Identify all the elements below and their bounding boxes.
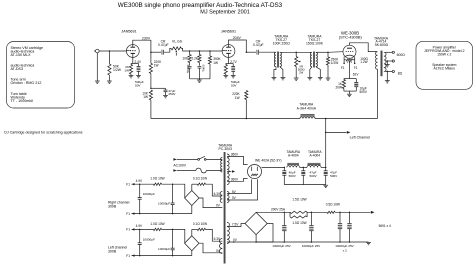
- switch SW1: [177, 158, 198, 160]
- wire T1 primary bottom to ground: [274, 67, 276, 78]
- svg-text:TT - 1000mkII: TT - 1000mkII: [11, 99, 34, 103]
- svg-text:8Ω: 8Ω: [398, 72, 403, 76]
- capacitor C9 40uF 500V: [284, 167, 286, 169]
- ground (T1 sec): [281, 77, 286, 79]
- capacitor C2 0.0033uF: [189, 63, 191, 66]
- svg-text:ALTEC Milano: ALTEC Milano: [434, 67, 456, 71]
- ground (VR): [294, 77, 299, 79]
- ground (V3 cathode): [347, 93, 352, 95]
- wire OPT secondary bottom to ground: [386, 71, 388, 80]
- svg-text:150W x 2: 150W x 2: [437, 52, 451, 56]
- terminal AC100V neutral: [173, 169, 176, 172]
- winding 6.3V right channel: [220, 192, 222, 203]
- svg-text:600Ω: 600Ω: [397, 53, 406, 57]
- svg-text:6.3V: 6.3V: [214, 192, 221, 196]
- resistor R2 10K: [189, 51, 191, 55]
- svg-text:5691 x 4: 5691 x 4: [379, 224, 391, 228]
- svg-text:2.2K: 2.2K: [191, 57, 198, 61]
- svg-text:F1: F1: [126, 254, 130, 258]
- resistor R11 1K 20W cathode: [344, 78, 356, 80]
- svg-text:1/2W: 1/2W: [113, 68, 122, 72]
- svg-text:WE 402A (5Z-3Y): WE 402A (5Z-3Y): [255, 159, 281, 163]
- wire V1 cathode: [132, 57, 134, 63]
- capacitor C14 10000uF 25V x2 a: [339, 212, 341, 214]
- capacitor 10000uF b Right: [172, 183, 174, 185]
- potentiometer VR 500 2W: [295, 52, 297, 56]
- svg-text:450V: 450V: [168, 92, 176, 96]
- svg-text:A-4004: A-4004: [310, 153, 321, 157]
- svg-text:WE300B single phono preamplif: WE300B single phono preamplifier Audio-T…: [118, 2, 283, 9]
- filament of V3 with legs F1 F1: [345, 55, 354, 57]
- wire bridge right to 0V tap Left: [199, 243, 222, 253]
- wire bridge top to 0.1ohm Left: [191, 229, 193, 235]
- resistor 0.1ohm 10W Left: [197, 228, 205, 230]
- wire RIAA common: [190, 78, 210, 80]
- wire bridge right to 0V tap Right: [199, 198, 222, 208]
- svg-text:0.47μF: 0.47μF: [253, 43, 264, 47]
- wire T2 primary bottom to ground: [310, 67, 312, 78]
- bridge rectifier BR3 200V 25A: [245, 212, 267, 234]
- capacitor C3 0.047uF: [198, 63, 200, 66]
- svg-text:1/2W: 1/2W: [331, 61, 338, 65]
- ground (R5): [129, 75, 134, 77]
- svg-text:500V: 500V: [360, 90, 368, 94]
- wire B+ riser from PSU: [325, 119, 327, 168]
- ground (RIAA): [198, 79, 200, 80]
- triode V1 JAN5691: [126, 45, 139, 58]
- svg-text:4.9V: 4.9V: [136, 179, 143, 183]
- svg-text:Ortofon : RMG 212: Ortofon : RMG 212: [11, 81, 42, 85]
- resistor 1.0ohm 10W Right: [153, 183, 161, 185]
- svg-text:A-4004: A-4004: [288, 153, 299, 157]
- svg-text:F1: F1: [126, 182, 130, 186]
- wire BR3 - rail: [256, 235, 368, 242]
- svg-text:1.0Ω 10W: 1.0Ω 10W: [150, 222, 164, 226]
- winding primary AC: [221, 158, 223, 172]
- svg-text:F1: F1: [354, 66, 358, 70]
- node C: [199, 50, 201, 52]
- svg-text:1W: 1W: [235, 96, 240, 100]
- svg-text:62V: 62V: [353, 72, 360, 76]
- wire jack to V1 grid: [99, 50, 126, 52]
- svg-text:500V: 500V: [310, 174, 318, 178]
- capacitor C6 0.47uF coupling: [256, 50, 258, 55]
- wire V2 plate to node F: [229, 40, 247, 52]
- svg-text:300B: 300B: [108, 204, 117, 208]
- svg-text:JAN5691: JAN5691: [221, 30, 236, 34]
- winding HV 360-0-360: [227, 154, 229, 185]
- svg-text:DJ Cartridge designed for scra: DJ Cartridge designed for scratching app…: [4, 131, 83, 135]
- svg-text:150Ω:100K: 150Ω:100K: [306, 41, 324, 45]
- resistor R6 220K 1W plate load: [150, 52, 152, 63]
- capacitor C7 500uF 50V cathode bypass V2: [232, 64, 234, 67]
- wire 0.1ohm to 6.3V tap Left: [206, 229, 223, 241]
- capacitor C13 10000uF 25V: [311, 212, 313, 214]
- ground (R9): [223, 75, 228, 77]
- svg-text:MJ September 2001: MJ September 2001: [200, 9, 250, 15]
- node B: [189, 50, 191, 52]
- resistor R10 250K 1/2W grid V3: [327, 52, 329, 57]
- svg-text:10000μF: 10000μF: [143, 237, 155, 241]
- svg-text:2.7V: 2.7V: [230, 60, 237, 64]
- wire OPT secondary mid to ground: [386, 61, 388, 65]
- wire OPT secondary tap mid: [385, 60, 392, 62]
- ground (C4): [136, 75, 141, 77]
- svg-text:10000μF 25V: 10000μF 25V: [272, 244, 291, 248]
- svg-text:360V: 360V: [231, 153, 239, 157]
- svg-text:2W: 2W: [299, 71, 304, 75]
- ground (T1 pri): [272, 77, 277, 79]
- wire cathode network bottom to ground: [344, 90, 356, 92]
- svg-text:1W: 1W: [213, 61, 218, 65]
- svg-text:10K: 10K: [183, 57, 190, 61]
- terminal F1 Left +: [132, 228, 135, 230]
- svg-text:x 2: x 2: [343, 248, 347, 252]
- svg-text:500V: 500V: [330, 174, 338, 178]
- ground (R10): [326, 77, 331, 79]
- svg-text:0.1Ω 10W: 0.1Ω 10W: [193, 177, 207, 181]
- svg-text:AC100V: AC100V: [173, 163, 186, 167]
- terminal F1 Left -: [132, 254, 135, 256]
- wire T1 secondary bottom to ground: [280, 67, 283, 78]
- svg-text:AT-DS3: AT-DS3: [11, 67, 24, 71]
- svg-text:0.1Ω 10W: 0.1Ω 10W: [193, 222, 207, 226]
- wire plate node to C1: [151, 51, 161, 53]
- svg-text:JAN5691: JAN5691: [121, 30, 136, 34]
- capacitor 10000uF a Left: [139, 229, 141, 231]
- svg-text:1W: 1W: [154, 63, 159, 67]
- wire Left rail to bridge: [162, 229, 185, 243]
- wire OPT secondary tap 8 ohm: [385, 70, 392, 72]
- svg-text:0.47μF: 0.47μF: [158, 43, 169, 47]
- svg-text:10000μF: 10000μF: [158, 247, 170, 251]
- svg-text:F1: F1: [126, 212, 130, 216]
- svg-text:4.9V: 4.9V: [136, 224, 143, 228]
- ground (PSU filter): [323, 184, 328, 186]
- svg-text:50V: 50V: [135, 84, 141, 88]
- ground (C5): [163, 95, 168, 97]
- potentiometer VL.GS: [171, 47, 181, 50]
- svg-text:200V 25A: 200V 25A: [271, 208, 286, 212]
- svg-text:2.4V: 2.4V: [135, 60, 142, 64]
- wire left channel feed: [325, 132, 327, 134]
- svg-text:F1: F1: [126, 228, 130, 232]
- wire T2 secondary bottom to ground: [316, 67, 321, 78]
- resistor R4 390K 1W: [209, 51, 211, 56]
- svg-text:360V: 360V: [231, 178, 239, 182]
- svg-text:1.0Ω 10W: 1.0Ω 10W: [150, 177, 164, 181]
- wire bridge bottom Left: [191, 251, 193, 256]
- svg-text:0.5Ω 10W: 0.5Ω 10W: [326, 202, 340, 206]
- wire jack shield to ground: [96, 53, 98, 81]
- info box: power amplifier / speakers: [416, 41, 473, 89]
- svg-text:A-3H4 40mA: A-3H4 40mA: [297, 106, 317, 110]
- resistor 1.0ohm 10W Left: [153, 228, 161, 230]
- svg-text:10000μF: 10000μF: [143, 192, 155, 196]
- capacitor 10000uF a Right: [139, 183, 141, 185]
- bridge rectifier Right: [185, 191, 199, 206]
- svg-text:Left Channel: Left Channel: [350, 135, 371, 139]
- capacitor C5 47uF 450V decoupling: [165, 88, 167, 89]
- ground (T2 sec): [318, 77, 323, 79]
- ground (OPT bottom): [385, 80, 390, 82]
- capacitor 10000uF b Left: [172, 229, 174, 231]
- terminal AC100V line: [173, 158, 176, 161]
- svg-text:0.0033μ: 0.0033μ: [186, 65, 188, 74]
- svg-text:(STC-4300B): (STC-4300B): [339, 34, 363, 39]
- info box: cartridge / tone arm / turntable: [7, 42, 75, 109]
- wire V2 cathode: [228, 57, 230, 63]
- svg-text:1W: 1W: [124, 68, 129, 72]
- svg-text:VL.GS: VL.GS: [172, 39, 183, 43]
- terminal F1 Right +: [132, 183, 135, 185]
- svg-text:204V: 204V: [233, 36, 242, 40]
- wire T2 secondary to V3 grid: [316, 51, 328, 53]
- resistor 0.1ohm 10W Right: [197, 183, 205, 185]
- wire pot to V2 grid: [181, 48, 222, 51]
- svg-text:1.2W: 1.2W: [360, 60, 367, 64]
- wire bridge bottom Right: [191, 206, 193, 214]
- wire BR3 + rail: [255, 211, 257, 213]
- ground (lower PSU): [366, 241, 371, 243]
- ground (OPT mid): [385, 64, 390, 66]
- bridge rectifier Left: [185, 236, 199, 251]
- svg-text:1.5Ω 10W: 1.5Ω 10W: [292, 221, 306, 225]
- wire PSU filter ground bus: [284, 184, 325, 186]
- svg-text:100K:150Ω: 100K:150Ω: [273, 41, 290, 45]
- svg-text:1.5Ω 10W: 1.5Ω 10W: [292, 198, 306, 202]
- node D: [209, 50, 211, 52]
- resistor R8 220K 1W plate load V2: [245, 91, 248, 100]
- svg-text:F1: F1: [341, 66, 345, 70]
- svg-text:10000μF: 10000μF: [158, 202, 170, 206]
- winding 6.3V left channel: [219, 239, 222, 254]
- svg-text:6.3V: 6.3V: [214, 237, 221, 241]
- terminal F1 Right -: [132, 212, 135, 214]
- svg-text:50V: 50V: [231, 84, 237, 88]
- winding 7.5V: [227, 223, 229, 244]
- winding 5V rectifier: [227, 192, 229, 203]
- wire V3 filament center to cathode network: [348, 61, 350, 79]
- wire T1 secondary to T2 primary: [280, 51, 312, 53]
- wire V3 plate to OPT: [350, 43, 378, 52]
- resistor R5 2K cathode: [130, 64, 132, 65]
- ground (jack): [95, 80, 100, 82]
- wire OPT primary bottom to B+ rail: [377, 69, 379, 118]
- capacitor C8 10uF 500V cathode: [355, 79, 357, 83]
- resistor R7 10K 1W dropper: [149, 90, 152, 100]
- wire C1 to volume pot: [164, 48, 172, 52]
- wire Left - rail: [132, 255, 192, 257]
- capacitor C15 10000uF 25V x2 b: [349, 212, 351, 214]
- wire plate node to C6: [246, 51, 256, 53]
- ground (C7): [231, 75, 236, 77]
- wire Right rail to bridge: [162, 184, 185, 198]
- wire 0.1ohm to 6.3V tap Right: [206, 184, 223, 196]
- capacitor C11 47uF 500V: [325, 167, 327, 169]
- wire B+ rail: [151, 118, 300, 120]
- svg-text:20W: 20W: [335, 86, 342, 90]
- ground (T2 pri): [307, 77, 312, 79]
- input jack J1: [96, 49, 100, 53]
- capacitor C12 10000uF 25V: [284, 212, 286, 214]
- fuse F1 line: [177, 170, 196, 172]
- resistor R1 50K 1/2W grid leak: [108, 51, 110, 64]
- ground (R1): [107, 80, 112, 82]
- wire rectifier output B+: [262, 166, 285, 168]
- wire V1 plate to node A: [133, 40, 151, 52]
- resistor R9 2K cathode V2: [225, 64, 227, 65]
- wire OPT secondary tap 600 ohm: [385, 51, 392, 53]
- svg-text:1W: 1W: [143, 95, 148, 99]
- svg-text:5K:600Ω: 5K:600Ω: [375, 43, 389, 47]
- svg-text:AT-150 MLX: AT-150 MLX: [11, 53, 32, 57]
- svg-text:300B: 300B: [108, 249, 117, 253]
- wire Right - rail: [132, 213, 192, 215]
- wire bridge top to 0.1ohm Right: [191, 184, 193, 190]
- capacitor C1 0.47uF coupling: [161, 50, 163, 55]
- svg-text:0.047μ: 0.047μ: [201, 65, 203, 73]
- terminal heater output arrow: [371, 211, 375, 214]
- resistor R3 2.2K: [198, 51, 200, 55]
- svg-text:10000μF 25V: 10000μF 25V: [335, 244, 354, 248]
- node E decoupling: [150, 88, 152, 90]
- svg-text:PC-3003: PC-3003: [219, 147, 232, 151]
- svg-text:500V: 500V: [289, 174, 297, 178]
- capacitor C10 47uF 500V: [303, 167, 305, 169]
- svg-text:7.5V: 7.5V: [232, 222, 239, 226]
- triode V2 JAN5691: [222, 45, 235, 58]
- capacitor C4 500uF 50V cathode bypass: [138, 64, 140, 67]
- wire C6 to T1 primary: [259, 51, 276, 53]
- wire HV center tap arrow: [227, 171, 231, 173]
- svg-text:10000μF 25V: 10000μF 25V: [302, 244, 321, 248]
